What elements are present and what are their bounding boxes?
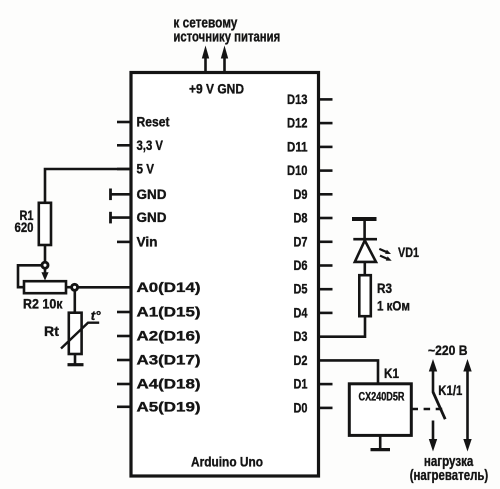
- svg-text:GND: GND: [137, 187, 167, 202]
- wire GND to mains supply (up arrow): [223, 57, 226, 72]
- Arduino Uno U1 body: [131, 73, 319, 477]
- svg-text:R3: R3: [377, 281, 392, 296]
- pin A5(D19): [117, 405, 131, 408]
- svg-text:A3(D17): A3(D17): [137, 353, 201, 368]
- switch K1/1 blade: [433, 392, 445, 419]
- pin D6: [319, 264, 333, 267]
- svg-text:620: 620: [15, 220, 34, 235]
- svg-text:D13: D13: [287, 92, 308, 107]
- pin A1(D15): [117, 311, 131, 314]
- svg-text:источнику питания: источнику питания: [173, 30, 280, 46]
- svg-text:D5: D5: [294, 282, 308, 297]
- resistor R1: [39, 203, 51, 245]
- ground bar under relay: [371, 448, 391, 451]
- pin D11: [319, 146, 333, 149]
- svg-text:CX240D5R: CX240D5R: [359, 392, 406, 404]
- wire R2 right end to node B: [66, 286, 72, 289]
- LED VD1 emission arrows: [379, 249, 386, 252]
- node A: junction R1 / R2 wiper: [42, 262, 48, 268]
- svg-text:D6: D6: [294, 258, 308, 273]
- svg-text:A4(D18): A4(D18): [137, 377, 201, 392]
- pin D13: [319, 98, 333, 101]
- thermistor Rt body: [69, 313, 82, 354]
- pin D8: [319, 217, 333, 220]
- wire node A to R2 wiper arrow: [44, 268, 47, 274]
- wire mains to switch K1/1 (up arrow): [429, 359, 437, 372]
- pin D5: [319, 288, 333, 291]
- svg-text:D2: D2: [294, 353, 308, 368]
- svg-text:3,3 V: 3,3 V: [137, 138, 164, 153]
- pin D10: [319, 169, 333, 172]
- svg-text:Rt: Rt: [44, 324, 60, 339]
- svg-text:(нагреватель): (нагреватель): [410, 468, 489, 484]
- LED VD1 cathode bar: [353, 238, 377, 241]
- svg-text:A1(D15): A1(D15): [137, 305, 201, 320]
- wire R3 to pin D3: [319, 316, 366, 337]
- pin D0: [319, 407, 333, 410]
- svg-text:D3: D3: [294, 329, 308, 344]
- wire mains direct to load (double-headed arrow): [463, 359, 471, 372]
- wire pin D2 to relay K1: [319, 360, 379, 383]
- pin D9: [319, 193, 333, 196]
- wire 5V pin to R1: [45, 169, 131, 203]
- svg-text:A0(D14): A0(D14): [137, 280, 201, 295]
- dashed mechanical link K1 to contact K1/1: [412, 408, 445, 411]
- wire Rt to ground: [74, 354, 77, 364]
- wire node B down to thermistor Rt: [74, 290, 77, 314]
- pin GND (upper) with terminal bar: [111, 193, 132, 196]
- pin A3(D17): [117, 359, 131, 362]
- svg-text:D9: D9: [294, 187, 308, 202]
- svg-text:Arduino Uno: Arduino Uno: [191, 455, 263, 470]
- svg-text:D1: D1: [294, 377, 308, 392]
- pin 5 V: [117, 168, 131, 171]
- svg-text:D4: D4: [294, 305, 308, 320]
- svg-text:A2(D16): A2(D16): [137, 329, 201, 344]
- svg-text:D8: D8: [294, 211, 308, 226]
- svg-text:1 кОм: 1 кОм: [377, 299, 410, 314]
- pin D4: [319, 312, 333, 315]
- pin A4(D18): [117, 383, 131, 386]
- pin D12: [319, 122, 333, 125]
- pin A2(D16): [117, 335, 131, 338]
- potentiometer R2 body: [24, 281, 66, 293]
- pin 3,3 V: [117, 144, 131, 147]
- svg-text:K1: K1: [384, 366, 399, 381]
- wire power bar to VD1: [363, 221, 366, 239]
- ground bar under Rt: [68, 363, 84, 366]
- svg-text:D7: D7: [294, 234, 308, 249]
- svg-text:GND: GND: [137, 210, 167, 225]
- pin GND (lower) with terminal bar: [111, 216, 132, 219]
- svg-text:Reset: Reset: [137, 115, 170, 130]
- pin D1: [319, 383, 333, 386]
- svg-text:A5(D19): A5(D19): [137, 399, 201, 414]
- wire node B to pin A0(D14): [77, 286, 131, 289]
- +5V power bar for VD1: [352, 217, 377, 221]
- wire R1 to node A: [44, 245, 47, 263]
- wire switch to load (down arrow): [432, 421, 435, 441]
- svg-text:K1/1: K1/1: [438, 383, 462, 398]
- svg-text:D12: D12: [287, 116, 308, 131]
- pin Reset: [117, 121, 131, 124]
- svg-text:R2 10к: R2 10к: [23, 297, 63, 312]
- wire +9V to mains supply (up arrow): [204, 57, 207, 72]
- resistor R3: [359, 275, 371, 316]
- svg-text:Vin: Vin: [137, 234, 158, 249]
- wire relay to ground: [379, 436, 382, 449]
- node B: junction R2 / Rt / A0: [72, 284, 78, 290]
- wire node A to R2 left end: [18, 265, 43, 287]
- pin D7: [319, 241, 333, 244]
- pin Vin: [117, 241, 131, 244]
- svg-text:t°: t°: [91, 309, 102, 323]
- relay K1 coil box: [349, 384, 411, 436]
- LED VD1 triangle: [355, 240, 376, 262]
- svg-text:D10: D10: [287, 163, 308, 178]
- wire VD1 to R3: [363, 262, 366, 276]
- svg-text:D11: D11: [287, 139, 308, 154]
- svg-text:5 V: 5 V: [137, 162, 155, 177]
- svg-text:+9 V GND: +9 V GND: [189, 82, 244, 97]
- svg-text:VD1: VD1: [398, 245, 419, 260]
- svg-text:~220 В: ~220 В: [428, 343, 468, 358]
- svg-text:D0: D0: [294, 400, 308, 415]
- thermistor diagonal strike with foot: [61, 323, 99, 349]
